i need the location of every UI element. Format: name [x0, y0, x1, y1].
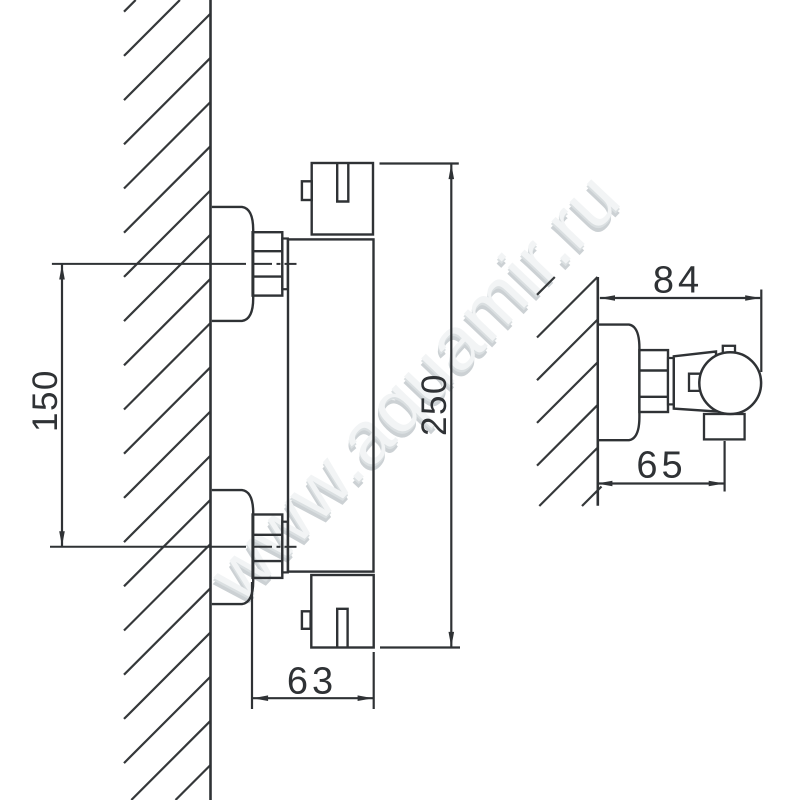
knob bottom: [302, 575, 374, 648]
flange top: [212, 207, 253, 321]
wall line left: [209, 0, 212, 800]
mixer body: [288, 239, 374, 571]
top tab on knob circle: [723, 346, 735, 353]
dimension 84: [600, 290, 762, 373]
wall line right: [596, 277, 599, 506]
svg-text:250: 250: [415, 373, 454, 436]
flange side view: [599, 325, 639, 441]
knob top: [302, 163, 373, 235]
svg-text:65: 65: [636, 445, 686, 487]
centerline top: [52, 263, 297, 265]
knob circle side view: [699, 352, 761, 414]
svg-text:84: 84: [653, 260, 703, 302]
dimension 63: [252, 582, 374, 709]
watermark www.aquamir.ru: [189, 155, 640, 623]
svg-text:63: 63: [287, 660, 337, 702]
washer bottom: [282, 522, 288, 573]
union nut bottom: [253, 515, 283, 578]
dimension 250: [380, 164, 461, 648]
wall hatch left: [124, 0, 211, 800]
dimension 150: [59, 264, 65, 547]
wall hatch right: [537, 277, 602, 506]
washer top: [282, 239, 288, 290]
valve body side view: [674, 352, 716, 412]
flange bottom: [212, 490, 253, 604]
button tab on circle: [689, 374, 701, 391]
dimension 65: [597, 441, 725, 492]
svg-text:150: 150: [26, 369, 65, 432]
washer side view: [668, 358, 674, 404]
outlet spout: [704, 414, 745, 439]
union nut top: [253, 232, 283, 295]
union nut side view: [639, 350, 668, 412]
centerline bottom: [50, 546, 297, 548]
